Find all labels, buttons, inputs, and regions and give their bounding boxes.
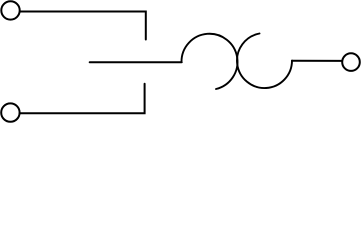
wire (top: from T1 right, horizontal to corner, then down vertical stub) — [20, 11, 146, 39]
loop L1 (left ring of interlocking coil, open at lower-left) — [181, 34, 237, 89]
terminal T3 (right open-circle terminal) — [342, 53, 360, 71]
wire (right horizontal line from loop L2 to terminal T3) — [292, 60, 342, 62]
terminal T2 (bottom-left open-circle terminal) — [1, 103, 19, 121]
loop L2 (right ring of interlocking coil, open at top) — [237, 34, 292, 89]
wire (middle horizontal line into loop) — [90, 61, 182, 63]
wire (bottom: from T2 right, horizontal to corner, then up vertical stub) — [20, 84, 145, 114]
terminal T1 (top-left open-circle terminal) — [1, 1, 19, 19]
